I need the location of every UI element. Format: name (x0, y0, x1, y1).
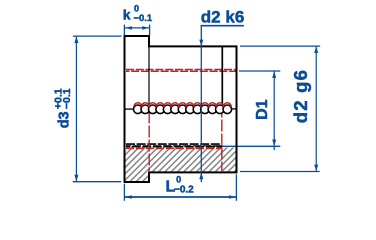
svg-text:−0.2: −0.2 (174, 185, 194, 196)
svg-text:d3: d3 (56, 111, 72, 128)
svg-text:0: 0 (176, 175, 181, 185)
svg-text:d2 k6: d2 k6 (201, 7, 244, 26)
svg-text:−0.1: −0.1 (133, 13, 152, 24)
svg-text:D1: D1 (254, 99, 271, 120)
svg-text:d2 g6: d2 g6 (290, 69, 311, 123)
svg-text:−0.1: −0.1 (61, 88, 73, 109)
svg-text:k: k (123, 7, 131, 23)
svg-text:0: 0 (134, 4, 139, 14)
